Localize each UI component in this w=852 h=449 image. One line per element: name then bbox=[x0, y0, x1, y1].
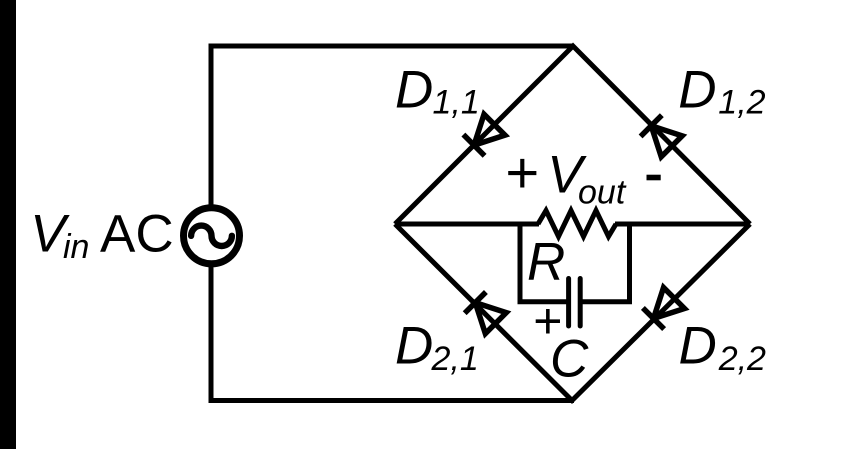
capacitor C plates bbox=[569, 279, 581, 327]
svg-text:D: D bbox=[395, 61, 433, 120]
svg-text:+: + bbox=[505, 140, 539, 205]
wire: bridge upper legs bbox=[395, 46, 750, 224]
svg-text:out: out bbox=[578, 173, 627, 211]
AC source circle bbox=[184, 208, 240, 264]
AC source sine bbox=[191, 226, 232, 246]
svg-text:in: in bbox=[63, 228, 89, 266]
wire: top horizontal bbox=[209, 44, 574, 49]
diode D1,2 symbol bbox=[641, 115, 683, 157]
svg-text:2,2: 2,2 bbox=[718, 340, 766, 378]
svg-text:2,1: 2,1 bbox=[431, 340, 479, 378]
wire: bottom horizontal bbox=[211, 398, 574, 403]
diode D1,1 symbol bbox=[463, 114, 505, 156]
wire: left vertical through source bbox=[209, 44, 214, 404]
wire: load box right bbox=[583, 222, 630, 302]
diode D2,1 symbol bbox=[465, 292, 507, 334]
svg-text:+: + bbox=[533, 293, 562, 349]
svg-text:D: D bbox=[395, 317, 433, 376]
label - of Vout bbox=[647, 175, 661, 181]
wire: bridge lower legs bbox=[395, 224, 750, 401]
svg-text:1,1: 1,1 bbox=[433, 84, 480, 122]
wire: middle left segment bbox=[395, 222, 539, 227]
diode D2,2 symbol bbox=[643, 287, 685, 329]
svg-text:D: D bbox=[679, 317, 717, 376]
svg-text:D: D bbox=[678, 60, 716, 119]
wire: load box left bbox=[520, 222, 567, 302]
resistor R zigzag bbox=[538, 211, 616, 237]
svg-text:R: R bbox=[527, 233, 565, 292]
svg-text:AC: AC bbox=[100, 204, 174, 263]
left black sidebar bbox=[0, 0, 16, 449]
wire: middle right segment bbox=[615, 222, 750, 227]
svg-text:1,2: 1,2 bbox=[718, 84, 765, 122]
